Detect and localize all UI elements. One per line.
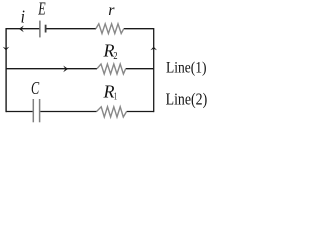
wire middle-right segment: [126, 68, 154, 70]
wire bottom-middle segment: [40, 111, 96, 113]
resistor R2: [97, 64, 126, 74]
battery E plate long: [39, 21, 41, 38]
wire right vertical: [153, 28, 155, 112]
battery E plate short: [45, 25, 47, 33]
wire bottom-left segment: [6, 111, 33, 113]
svg-text:C: C: [31, 78, 40, 98]
arrow down (left vertical wire): [3, 47, 10, 51]
arrow right (middle wire): [63, 66, 68, 73]
svg-text:R: R: [103, 82, 115, 102]
wire left vertical: [5, 28, 7, 112]
capacitor C plate left: [32, 99, 34, 122]
wire bottom-right segment: [127, 111, 154, 113]
current arrow i (left-pointing on top wire): [19, 26, 24, 33]
wire middle-left segment: [6, 68, 97, 70]
wire top-right segment: [124, 28, 154, 30]
svg-text:E: E: [38, 0, 46, 19]
svg-text:2: 2: [113, 51, 117, 62]
svg-text:1: 1: [114, 91, 117, 102]
resistor R1: [97, 107, 127, 117]
svg-text:Line(1): Line(1): [166, 60, 207, 77]
svg-text:r: r: [108, 2, 115, 19]
svg-text:i: i: [21, 7, 25, 27]
arrow up (right vertical wire): [150, 47, 157, 51]
resistor r: [96, 24, 124, 34]
svg-text:Line(2): Line(2): [166, 90, 208, 109]
wire top-left segment: [6, 28, 40, 30]
wire top-middle segment: [46, 28, 96, 30]
capacitor C plate right: [39, 99, 41, 122]
